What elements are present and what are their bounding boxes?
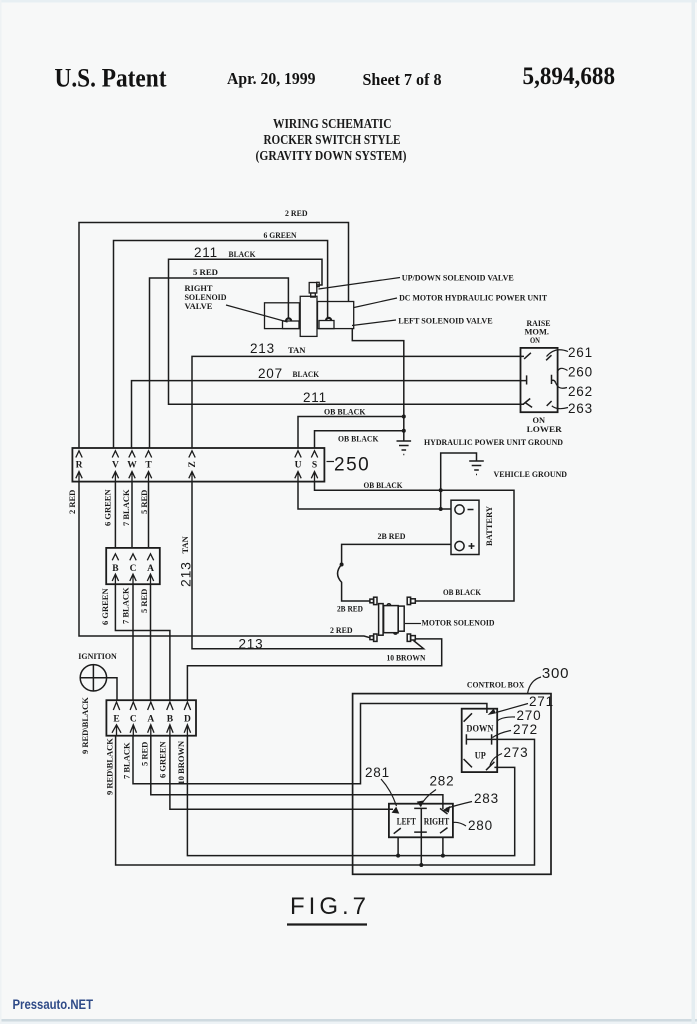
svg-text:VEHICLE GROUND: VEHICLE GROUND	[494, 469, 568, 479]
svg-text:Apr. 20, 1999: Apr. 20, 1999	[227, 69, 316, 88]
svg-text:270: 270	[517, 708, 542, 723]
svg-text:(GRAVITY DOWN SYSTEM): (GRAVITY DOWN SYSTEM)	[256, 149, 407, 164]
svg-text:2 RED: 2 RED	[67, 490, 77, 514]
svg-text:6 GREEN: 6 GREEN	[158, 741, 168, 778]
svg-text:WIRING SCHEMATIC: WIRING SCHEMATIC	[273, 117, 392, 132]
svg-text:271: 271	[529, 694, 554, 709]
svg-text:207: 207	[258, 366, 283, 381]
svg-text:C: C	[130, 715, 137, 725]
svg-text:DC MOTOR HYDRAULIC POWER UNIT: DC MOTOR HYDRAULIC POWER UNIT	[399, 293, 547, 303]
svg-text:213: 213	[250, 341, 275, 356]
svg-text:5,894,688: 5,894,688	[523, 63, 616, 90]
svg-text:TAN: TAN	[288, 345, 306, 355]
svg-text:2B RED: 2B RED	[378, 531, 406, 541]
svg-text:260: 260	[568, 365, 593, 380]
svg-text:250: 250	[334, 455, 370, 476]
svg-text:7 BLACK: 7 BLACK	[121, 587, 131, 624]
svg-text:FIG.7: FIG.7	[290, 893, 370, 920]
svg-text:Z: Z	[188, 461, 198, 467]
svg-text:283: 283	[474, 791, 499, 806]
svg-text:6 GREEN: 6 GREEN	[100, 588, 110, 625]
svg-text:IGNITION: IGNITION	[78, 651, 117, 661]
svg-text:CONTROL BOX: CONTROL BOX	[467, 680, 525, 690]
svg-text:213: 213	[178, 561, 194, 587]
svg-text:B: B	[112, 564, 119, 574]
svg-text:ROCKER SWITCH STYLE: ROCKER SWITCH STYLE	[264, 133, 401, 148]
svg-text:UP/DOWN SOLENOID VALVE: UP/DOWN SOLENOID VALVE	[402, 273, 514, 283]
svg-text:OB BLACK: OB BLACK	[364, 480, 403, 490]
svg-text:282: 282	[430, 774, 455, 789]
svg-text:A: A	[147, 715, 154, 725]
svg-text:211: 211	[194, 245, 218, 260]
svg-text:6 GREEN: 6 GREEN	[103, 489, 113, 526]
svg-text:DOWN: DOWN	[466, 725, 493, 735]
svg-text:263: 263	[568, 401, 593, 416]
svg-text:213: 213	[239, 637, 264, 652]
svg-text:OB BLACK: OB BLACK	[324, 407, 366, 417]
svg-text:LEFT SOLENOID VALVE: LEFT SOLENOID VALVE	[398, 316, 493, 326]
svg-text:LEFT: LEFT	[397, 818, 417, 828]
svg-text:262: 262	[568, 384, 593, 399]
svg-text:U: U	[295, 461, 302, 471]
svg-text:300: 300	[542, 665, 569, 682]
svg-text:B: B	[167, 715, 174, 725]
svg-text:2B RED: 2B RED	[337, 604, 363, 614]
svg-text:S: S	[312, 461, 317, 471]
svg-text:211: 211	[303, 390, 327, 405]
svg-text:7 BLACK: 7 BLACK	[121, 489, 131, 526]
svg-text:BLACK: BLACK	[229, 249, 256, 259]
svg-text:5 RED: 5 RED	[139, 490, 149, 514]
svg-text:BATTERY: BATTERY	[484, 506, 494, 546]
svg-text:2 RED: 2 RED	[285, 208, 308, 218]
svg-text:2 RED: 2 RED	[330, 625, 353, 635]
svg-text:TAN: TAN	[180, 535, 190, 553]
svg-text:W: W	[127, 461, 137, 471]
svg-text:MOTOR SOLENOID: MOTOR SOLENOID	[422, 618, 495, 628]
svg-text:6 GREEN: 6 GREEN	[264, 230, 298, 240]
svg-text:HYDRAULIC POWER UNIT GROUND: HYDRAULIC POWER UNIT GROUND	[424, 437, 563, 447]
svg-text:RIGHT: RIGHT	[424, 818, 450, 828]
svg-text:Pressauto.NET: Pressauto.NET	[13, 997, 94, 1012]
svg-text:281: 281	[365, 765, 390, 780]
svg-text:280: 280	[468, 818, 493, 833]
svg-text:9 RED\BLACK: 9 RED\BLACK	[80, 697, 90, 754]
svg-text:D: D	[184, 715, 191, 725]
svg-text:272: 272	[513, 722, 538, 737]
svg-text:10 BROWN: 10 BROWN	[387, 653, 427, 663]
svg-text:T: T	[145, 461, 152, 471]
svg-text:R: R	[76, 461, 83, 471]
svg-text:9 RED\BLACK: 9 RED\BLACK	[105, 738, 115, 795]
svg-text:BLACK: BLACK	[293, 369, 320, 379]
svg-text:A: A	[147, 564, 154, 574]
svg-text:U.S. Patent: U.S. Patent	[55, 64, 167, 93]
svg-text:LOWER: LOWER	[527, 424, 563, 434]
svg-text:5 RED: 5 RED	[193, 267, 218, 277]
svg-text:E: E	[113, 715, 119, 725]
svg-text:10 BROWN: 10 BROWN	[176, 740, 186, 785]
svg-text:V: V	[112, 461, 119, 471]
svg-text:7 BLACK: 7 BLACK	[122, 742, 132, 779]
svg-text:273: 273	[504, 745, 529, 760]
svg-text:UP: UP	[475, 752, 486, 762]
svg-text:Sheet 7 of 8: Sheet 7 of 8	[363, 70, 442, 89]
svg-text:OB BLACK: OB BLACK	[443, 587, 481, 597]
svg-text:ON: ON	[530, 335, 541, 345]
svg-text:C: C	[130, 564, 137, 574]
svg-text:VALVE: VALVE	[185, 301, 213, 311]
svg-text:261: 261	[568, 345, 593, 360]
svg-text:OB BLACK: OB BLACK	[338, 434, 379, 444]
svg-text:5 RED: 5 RED	[140, 742, 150, 766]
svg-text:5 RED: 5 RED	[139, 589, 149, 613]
